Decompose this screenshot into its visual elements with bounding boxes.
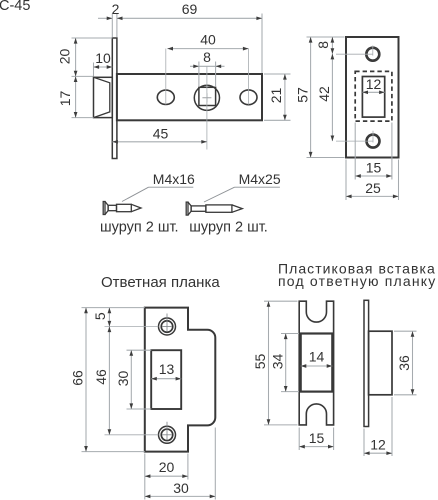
latch opening 13mm <box>151 350 181 409</box>
dim 57 extension lines <box>307 36 345 38</box>
faceplate side view (2mm plate) <box>112 38 117 159</box>
svg-text:шуруп 2 шт.: шуруп 2 шт. <box>189 220 268 236</box>
svg-text:46: 46 <box>93 369 109 385</box>
dim 36 extension lines <box>394 330 417 332</box>
dim 30 vert extension lines <box>127 349 152 351</box>
dim 17 <box>74 76 78 82</box>
dim 40 <box>167 48 248 50</box>
svg-text:40: 40 <box>200 32 216 48</box>
svg-text:17: 17 <box>57 91 73 107</box>
svg-text:12: 12 <box>370 437 386 453</box>
dim 34 <box>285 334 287 392</box>
dim 20 <box>145 475 188 477</box>
svg-text:45: 45 <box>153 126 169 142</box>
svg-text:13: 13 <box>159 361 175 377</box>
svg-text:42: 42 <box>316 86 332 102</box>
right hole <box>240 90 257 105</box>
dim 30 bottom <box>145 495 216 497</box>
latch window 12mm <box>362 77 384 118</box>
dim 8 spindle <box>190 65 225 67</box>
svg-text:5: 5 <box>92 312 108 320</box>
svg-text:под ответную планку: под ответную планку <box>278 273 437 289</box>
dim 30 vert <box>130 350 132 409</box>
dim 66 <box>85 308 87 452</box>
spindle center cross <box>202 97 211 99</box>
dim 15 <box>355 175 392 177</box>
dim 42 <box>331 54 333 141</box>
top hole center marks <box>336 53 373 55</box>
top hole cross <box>166 314 168 332</box>
insert side view body <box>369 331 392 395</box>
bottom hole center marks <box>336 140 373 142</box>
dim 25 <box>346 195 399 197</box>
leader M4x16 <box>122 187 149 201</box>
svg-text:25: 25 <box>365 180 381 196</box>
spindle circle <box>194 85 219 110</box>
dim 5 <box>108 308 110 327</box>
svg-text:36: 36 <box>396 355 412 371</box>
latch body <box>117 74 262 120</box>
spindle square 8mm <box>199 87 216 105</box>
screw M4x25 <box>186 202 188 215</box>
svg-text:69: 69 <box>182 1 198 17</box>
svg-text:14: 14 <box>309 349 325 365</box>
svg-text:10: 10 <box>95 50 111 66</box>
insert side view thin plate <box>364 300 369 426</box>
dim 25 extension lines <box>345 160 347 201</box>
dim 15 insert <box>299 446 333 448</box>
svg-text:шуруп 2 шт.: шуруп 2 шт. <box>100 220 179 236</box>
hole center lines <box>165 49 167 105</box>
insert front view outline <box>299 301 333 425</box>
dim 45 <box>112 141 207 143</box>
dim 10 <box>93 63 95 77</box>
svg-text:Ответная планка: Ответная планка <box>101 274 220 291</box>
top screw hole <box>366 47 380 61</box>
svg-text:20: 20 <box>159 459 175 475</box>
svg-text:8: 8 <box>315 41 331 49</box>
svg-text:57: 57 <box>294 87 310 103</box>
dim 20 / 17 extension lines <box>72 37 113 39</box>
extension lines 66 <box>82 307 145 309</box>
bottom screw hole <box>159 426 176 443</box>
dim 34 extension lines <box>281 333 299 335</box>
dim 15 extension lines <box>354 123 356 180</box>
dim 55 <box>268 301 270 425</box>
svg-text:30: 30 <box>115 371 131 387</box>
screw M4x16 <box>103 202 105 215</box>
dim 12 <box>362 91 384 93</box>
bottom hole cross <box>166 422 168 440</box>
svg-text:34: 34 <box>270 354 286 370</box>
svg-text:66: 66 <box>70 370 86 386</box>
bottom screw hole <box>366 134 380 148</box>
dim 57 <box>310 37 312 158</box>
latch bolt <box>94 77 113 117</box>
svg-text:2: 2 <box>112 1 120 17</box>
svg-text:M4x16: M4x16 <box>153 171 195 187</box>
svg-text:15: 15 <box>366 160 382 176</box>
left hole <box>157 90 174 104</box>
dim 69 <box>117 17 262 19</box>
dim 46 <box>108 327 110 435</box>
latch bolt bevel <box>94 77 110 117</box>
dim 20 <box>75 38 77 118</box>
dim 14 <box>301 365 333 367</box>
extension lines hole centers <box>105 326 159 328</box>
dim 55 extension lines <box>264 300 298 302</box>
dim 21 extension lines <box>264 73 291 75</box>
leader M4x25 <box>204 187 235 202</box>
svg-text:20: 20 <box>57 49 73 65</box>
svg-text:21: 21 <box>268 88 284 104</box>
svg-text:8: 8 <box>203 49 211 65</box>
dim 12 extension lines <box>363 429 365 457</box>
insert middle section 14mm hole <box>301 334 333 392</box>
svg-text:12: 12 <box>366 76 382 92</box>
dim 21 <box>284 74 286 120</box>
extension lines top <box>111 14 113 38</box>
svg-text:55: 55 <box>252 354 268 370</box>
svg-text:15: 15 <box>309 430 325 446</box>
dim 15 insert extension lines <box>298 428 300 451</box>
dim 12 <box>364 452 392 454</box>
faceplate front view <box>346 37 399 158</box>
dim 8 <box>331 37 333 54</box>
top screw hole <box>159 318 176 335</box>
svg-text:M4x25: M4x25 <box>239 171 281 187</box>
strike plate outline <box>145 308 216 452</box>
dim 13 <box>151 378 181 380</box>
dashed latch zone <box>355 71 392 121</box>
svg-text:30: 30 <box>173 480 189 496</box>
dim 2 <box>98 17 112 19</box>
svg-text:C-45: C-45 <box>0 0 30 14</box>
bottom extension lines <box>144 454 146 500</box>
dim 36 <box>412 331 414 395</box>
